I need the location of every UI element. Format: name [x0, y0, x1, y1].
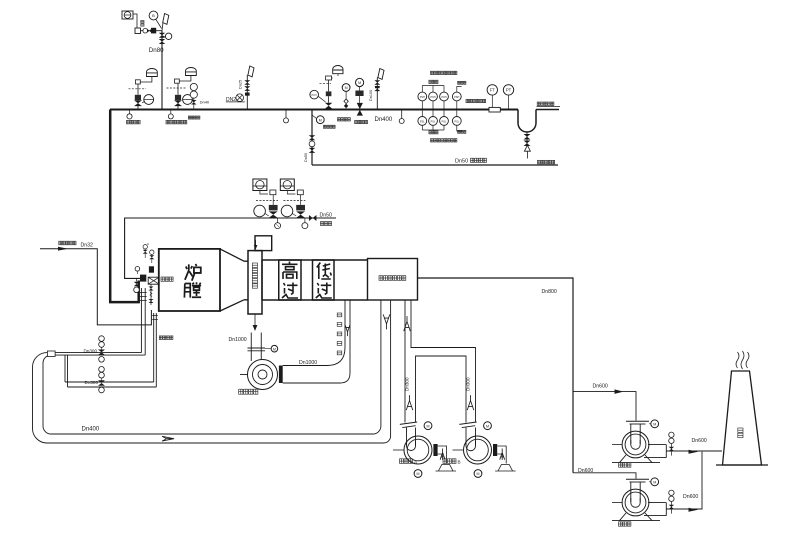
- flame air pipe: [40, 249, 151, 325]
- M motor fanC: [651, 420, 659, 428]
- wire box to solenoid: [133, 14, 137, 28]
- solenoid box 2: [175, 79, 180, 83]
- svg-text:PSL: PSL: [431, 120, 436, 123]
- main gas header Dn400: [110, 109, 518, 111]
- svg-text:Dn50: Dn50: [320, 212, 333, 218]
- svg-text:M: M: [319, 118, 322, 122]
- svg-text:PSH: PSH: [441, 96, 446, 99]
- svg-text:B: B: [458, 459, 461, 464]
- burner drain: [150, 284, 152, 305]
- M valve below header: [316, 116, 324, 124]
- pilot bowtie: [147, 29, 151, 33]
- svg-text:M: M: [477, 472, 480, 476]
- flame air arrow: [58, 247, 68, 251]
- hatch actuator 5: [355, 91, 363, 97]
- igniter housing: [148, 277, 159, 284]
- flow arrow c: [689, 450, 699, 454]
- desuperheater box: [255, 236, 272, 251]
- burner circle: [135, 267, 140, 272]
- ID fan C: [622, 431, 649, 458]
- lower Dn300 duct: [65, 382, 156, 387]
- flag vent top: [163, 14, 169, 25]
- label plant steam top: [537, 102, 540, 106]
- label alarm bottom: [458, 130, 460, 133]
- duct flow arrow: [162, 436, 174, 441]
- impulse dashed A2: [283, 200, 305, 202]
- drain circle A1: [277, 218, 279, 223]
- burner valve pair: [143, 245, 147, 249]
- svg-text:M: M: [653, 422, 656, 426]
- ID branch 1 pipe: [573, 392, 636, 421]
- wire dome2: [179, 76, 191, 82]
- label steam pressure high group: [431, 71, 434, 74]
- drain stub B: [401, 110, 403, 119]
- solenoid valve black: [151, 28, 156, 34]
- valve V1 on riser: [159, 33, 166, 38]
- M motor fanA top: [424, 422, 432, 430]
- FD fan A: [404, 436, 432, 464]
- upper Dn300 valve cluster: [99, 336, 105, 342]
- svg-text:Dn400: Dn400: [375, 117, 393, 123]
- line valve spray: [309, 215, 317, 221]
- svg-text:M: M: [273, 347, 276, 351]
- ID fan D: [622, 489, 649, 516]
- label interlock top: [429, 80, 432, 83]
- svg-text:M: M: [653, 480, 656, 484]
- instrument circle right: [165, 33, 171, 39]
- vent arrow A: [440, 448, 445, 459]
- bypass valve: [191, 100, 197, 105]
- FD fan A vent: [438, 446, 447, 464]
- orifice flow element: [489, 107, 500, 112]
- vent arrow B: [500, 448, 505, 459]
- chimney: [723, 371, 762, 465]
- svg-text:Dn600: Dn600: [593, 384, 608, 390]
- drain stub A: [285, 110, 287, 118]
- impulse dashed A1: [256, 200, 278, 202]
- svg-text:Dn50: Dn50: [304, 153, 308, 162]
- circulation fan: [248, 360, 278, 390]
- label igniter: [161, 277, 165, 281]
- circ fan inlet flange: [248, 347, 266, 349]
- label fuel-gas metering: [166, 120, 169, 124]
- FD fan A vent base: [436, 465, 457, 472]
- FD fan B: [464, 436, 492, 464]
- svg-text:Dn32: Dn32: [81, 242, 94, 248]
- FD fan B discharge flange: [493, 444, 497, 456]
- ID fan C damper: [670, 444, 672, 456]
- Dn400 duct outer: [33, 300, 391, 443]
- svg-text:PSH: PSH: [430, 96, 435, 99]
- LP steam line: [312, 164, 558, 166]
- label alarm top: [458, 81, 460, 84]
- pipe to plant steam: [536, 109, 559, 111]
- svg-text:PSH: PSH: [454, 96, 459, 99]
- char GUO2: [316, 283, 332, 299]
- drain circle 1: [129, 110, 131, 115]
- flow arrow d: [689, 508, 699, 512]
- FD fan B vent base: [495, 465, 515, 472]
- M motor circ fan: [271, 345, 278, 352]
- M motor fanD: [651, 478, 659, 486]
- label motor valve group: [338, 118, 341, 121]
- Dn400 duct inner: [43, 300, 381, 434]
- trap drain valves: [526, 132, 528, 145]
- LP superheater box: [313, 260, 335, 300]
- main header left drop (thick): [110, 110, 139, 303]
- evaporator label rot: [252, 263, 257, 267]
- ID fan D damper: [670, 502, 672, 514]
- drain circle 2: [170, 110, 172, 115]
- label flame center air: [59, 241, 62, 245]
- label plant steam bottom: [538, 160, 541, 164]
- FD fan B vent: [497, 446, 506, 464]
- wire pilot line: [141, 30, 163, 32]
- drain circle A2: [304, 218, 306, 223]
- svg-text:M: M: [345, 86, 348, 90]
- char GUO1: [282, 283, 298, 299]
- trap drain arrow: [524, 145, 530, 151]
- circle B: [149, 11, 158, 20]
- wire A2: [287, 191, 295, 195]
- up arrow marker 2: [406, 395, 413, 410]
- nozzle cap: [47, 351, 55, 357]
- svg-text:FT: FT: [490, 88, 496, 93]
- svg-text:Dn300: Dn300: [466, 377, 471, 391]
- duct riser pair A: [141, 288, 145, 355]
- svg-text:Dn600: Dn600: [578, 468, 593, 474]
- bypass circles: [190, 83, 197, 90]
- recirc label rot: [337, 313, 342, 317]
- svg-text:Dn40: Dn40: [200, 99, 210, 104]
- label circulation fan: [239, 389, 243, 394]
- svg-text:PSL: PSL: [454, 120, 459, 123]
- actuator 3: [326, 91, 332, 96]
- impulse dashed 2: [167, 87, 187, 89]
- HP superheater box: [279, 260, 301, 300]
- actuator 1: [135, 95, 141, 100]
- M circle 5: [356, 78, 364, 86]
- pipe Dn80 riser: [161, 31, 163, 110]
- ID fan C discharge: [644, 445, 666, 458]
- svg-text:Dn300: Dn300: [405, 377, 410, 391]
- branch valves: [309, 135, 316, 140]
- duct riser pair B: [154, 313, 157, 387]
- label air preheater: [379, 276, 383, 281]
- svg-text:Dn600: Dn600: [692, 438, 707, 444]
- actuator 2: [175, 95, 181, 100]
- M motor fanB bottom: [474, 470, 482, 478]
- flow arrow b1: [615, 389, 624, 394]
- lower Dn300 valve cluster: [99, 367, 105, 373]
- branch pipe to LP: [311, 110, 313, 166]
- svg-text:Dn300: Dn300: [84, 348, 98, 353]
- recirc down arrow: [345, 325, 350, 337]
- U seal trap: [518, 110, 536, 133]
- PCV circle: [310, 90, 319, 99]
- furnace char TANG: [184, 282, 201, 297]
- interlock bracket top: [422, 85, 444, 87]
- wire A1: [260, 191, 268, 195]
- wire dome1: [141, 77, 152, 83]
- spray valve A1: [269, 211, 278, 218]
- svg-text:Dn100: Dn100: [369, 90, 373, 101]
- solenoid box: [135, 28, 141, 34]
- svg-text:Dn400: Dn400: [82, 427, 100, 433]
- svg-text:Dn800: Dn800: [542, 289, 557, 295]
- flow meter circle 1: [144, 95, 154, 105]
- flue duct: [262, 260, 368, 300]
- label ID fan D: [619, 522, 623, 526]
- flag igniter: [248, 66, 254, 77]
- instrument box PI top-left: [122, 11, 133, 19]
- circ fan discharge flange: [279, 366, 283, 384]
- furnace body: [159, 249, 220, 311]
- evaporator bank box: [248, 251, 262, 314]
- valve diamonds 4: [345, 91, 347, 99]
- spray branch valve: [136, 278, 138, 281]
- label self-circ air: [159, 336, 162, 340]
- gate valve through header: [357, 103, 363, 116]
- flag vent Dn100: [378, 69, 384, 80]
- label chimney rot: [738, 428, 743, 432]
- svg-text:PT: PT: [506, 88, 512, 93]
- spray valve A2: [296, 211, 305, 218]
- FD duct risers: [405, 300, 476, 423]
- control valve 3: [325, 103, 333, 109]
- label FD fan B: [443, 459, 447, 464]
- label to plant steam main: [466, 99, 469, 102]
- control valve 1: [134, 100, 142, 106]
- air preheater box: [368, 259, 418, 301]
- svg-text:M: M: [358, 81, 361, 85]
- pressure switches low: [418, 117, 427, 126]
- control valve 2: [174, 100, 182, 106]
- flow meter circle 2: [183, 95, 193, 105]
- vertical note: [141, 21, 144, 23]
- flex ticks A: [140, 293, 147, 301]
- svg-text:PSL: PSL: [420, 120, 425, 123]
- up arrow marker 3: [467, 395, 474, 410]
- svg-text:M: M: [417, 472, 420, 476]
- svg-text:PCV: PCV: [312, 93, 318, 97]
- positioner A1: [253, 179, 267, 191]
- ID fan D flange: [626, 478, 649, 480]
- ID fan D base: [620, 513, 653, 521]
- flow circle A2: [281, 205, 293, 217]
- ID fan D discharge: [644, 503, 666, 516]
- actuator A1: [269, 205, 278, 211]
- M motor fanA bottom: [414, 470, 422, 478]
- recirc duct: [283, 300, 345, 366]
- solenoid A2: [297, 190, 303, 195]
- svg-text:B: B: [152, 13, 155, 18]
- svg-text:PSL: PSL: [442, 120, 447, 123]
- svg-text:Dn80: Dn80: [149, 47, 164, 54]
- svg-text:PSH: PSH: [420, 96, 425, 99]
- svg-text:Dn25: Dn25: [239, 80, 243, 89]
- svg-text:M: M: [486, 424, 489, 428]
- flow circle A1: [254, 205, 266, 217]
- char GAO: [282, 262, 298, 280]
- flue out pipe Dn800: [418, 278, 574, 473]
- chimney smoke: [736, 351, 749, 369]
- solenoid box 3: [326, 76, 332, 80]
- FD fan B flange: [459, 422, 477, 428]
- positioner dome 3: [333, 66, 343, 74]
- svg-text:Dn300: Dn300: [85, 380, 99, 385]
- burner black block A: [140, 275, 146, 282]
- spray water line: [125, 218, 336, 278]
- ID fan C base: [620, 455, 653, 463]
- svg-text:M: M: [427, 424, 430, 428]
- wire circle B to node: [156, 19, 162, 28]
- M motor fanB top: [484, 422, 492, 430]
- label interlock bottom: [429, 131, 432, 134]
- label spray water: [320, 222, 323, 226]
- evaporator outlet arrow: [254, 314, 256, 326]
- positioner dome 2: [186, 67, 197, 75]
- duct down arrow marker: [383, 314, 390, 329]
- label solenoid group: [188, 116, 190, 119]
- impulse dashed 1: [129, 88, 147, 90]
- flex ticks B: [152, 316, 158, 320]
- label ID fan C: [619, 463, 623, 467]
- branch jog: [65, 355, 68, 387]
- svg-text:Dn1000: Dn1000: [229, 337, 247, 343]
- ID fan C flange: [626, 420, 649, 422]
- label motor gate: [355, 120, 358, 123]
- FD fan A flange: [400, 422, 418, 428]
- pressure switches high: [418, 92, 427, 101]
- svg-text:Dn600: Dn600: [683, 494, 698, 500]
- label steam pressure low group: [431, 139, 434, 142]
- solenoid A1: [270, 190, 276, 195]
- char DI: [317, 263, 332, 280]
- M circle 4: [342, 84, 350, 92]
- FD fan A discharge flange: [433, 444, 437, 456]
- circ fan inlet duct: [251, 333, 261, 362]
- igniter valves: [244, 80, 250, 85]
- label FD fan A: [400, 459, 404, 464]
- solenoid box 1: [136, 80, 141, 84]
- svg-text:Dn50: Dn50: [455, 159, 468, 165]
- PT transmitter: [503, 85, 513, 95]
- instrument circle on pilot: [143, 28, 148, 33]
- up arrow marker 1: [404, 316, 411, 331]
- positioner dome 1: [147, 68, 158, 76]
- burner black block B: [149, 266, 154, 272]
- label fuel-gas 1: [127, 120, 130, 124]
- valve V2 on riser: [159, 39, 166, 44]
- FT transmitter: [487, 85, 497, 95]
- label to igniter: [324, 125, 326, 128]
- positioner A2: [280, 179, 294, 191]
- interlock bracket bottom: [422, 129, 444, 131]
- svg-text:Dn1000: Dn1000: [299, 360, 317, 366]
- ID branch 2 pipe: [573, 473, 636, 479]
- impulse dashed 3: [320, 82, 332, 84]
- furnace char LU: [185, 264, 202, 281]
- actuator A2: [296, 205, 305, 211]
- vent valves: [374, 80, 380, 85]
- furnace outlet transition: [220, 249, 248, 311]
